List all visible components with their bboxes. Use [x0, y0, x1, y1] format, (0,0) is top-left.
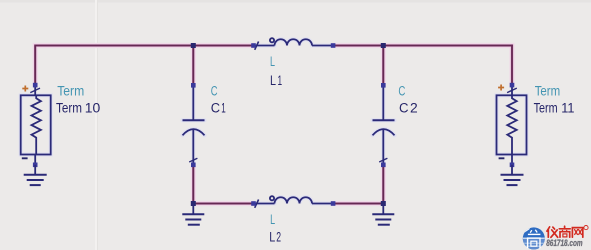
svg-text:C: C	[211, 83, 218, 98]
C1 pin2 node square	[191, 163, 196, 168]
L2 lead pin1	[254, 203, 275, 205]
L2 polarity circle	[270, 196, 274, 200]
wire: C1 upper stub	[192, 46, 194, 86]
inductor L1	[254, 38, 334, 50]
wire: right vertical to Term11	[511, 45, 513, 85]
L1 pin2 node square	[331, 43, 336, 48]
wire: bottom rail right segment	[333, 203, 383, 205]
wire: C2 lower stub	[382, 165, 384, 204]
svg-text:L: L	[270, 212, 275, 227]
svg-text:Term10: Term10	[56, 100, 100, 116]
wire: top rail left segment	[34, 45, 193, 47]
wire: top rail right segment	[383, 45, 513, 47]
wire: top rail L1 pin2 to node2	[333, 45, 383, 47]
wire: left vertical from top rail to Term10	[34, 46, 36, 86]
svg-text:C1: C1	[211, 101, 226, 117]
C1 bottom lead	[192, 130, 194, 166]
svg-text:L2: L2	[269, 229, 281, 245]
terminal Term10	[21, 85, 51, 165]
Term10 ground	[24, 165, 47, 185]
wire glow layer	[35, 46, 512, 204]
L2 pin1 node square	[251, 201, 256, 206]
C2 pin1 node square	[381, 83, 386, 88]
C2 pin2 node square	[381, 163, 386, 168]
Term11 pin1 slash	[507, 88, 517, 93]
Term10 top lead	[34, 85, 36, 95]
L2 coil	[275, 197, 313, 203]
watermark registered mark	[584, 226, 588, 230]
L1 lead pin1	[254, 45, 275, 47]
svg-text:Term: Term	[535, 83, 561, 98]
Term10 bottom lead	[34, 155, 36, 165]
logo glyph (white 商)	[528, 230, 541, 249]
Term11 body box	[497, 95, 527, 154]
char 网	[572, 228, 582, 238]
L1 polarity circle	[270, 38, 274, 42]
Term11 top lead	[511, 85, 513, 95]
Term11 ground	[501, 165, 524, 185]
Term10 pin node square	[33, 83, 38, 88]
L1 pin1 slash	[255, 42, 259, 50]
C1 curved plate	[183, 129, 205, 135]
terminal Term11	[497, 85, 527, 165]
char 仪	[547, 227, 550, 231]
L1 coil	[275, 39, 313, 45]
wire: C2 upper stub	[382, 46, 384, 86]
C1 flat plate	[183, 119, 205, 121]
wire: top rail node1 to L1 pin1	[193, 45, 253, 47]
Term10 body box	[21, 95, 51, 154]
capacitor C1	[183, 85, 205, 165]
L1 lead pin2	[312, 45, 333, 47]
Term11 resistor zigzag	[507, 95, 516, 154]
L2 pin2 node square	[331, 201, 336, 206]
Term10 resistor zigzag	[32, 95, 41, 154]
C1 pin1 node square	[191, 83, 196, 88]
ground at bottom-right node	[372, 204, 394, 225]
node junction square top-right (node 2)	[381, 43, 386, 48]
C2 pin2 slash	[379, 158, 387, 162]
L2 pin1 slash	[255, 200, 259, 208]
svg-text:Term11: Term11	[534, 100, 575, 116]
C2 curved plate	[373, 129, 395, 135]
Term11 plus sign	[498, 85, 504, 91]
C1 top lead	[192, 85, 194, 120]
wire: C1 lower stub	[192, 165, 194, 204]
panel divider line	[95, 0, 97, 250]
Term11 ground node square	[510, 163, 515, 168]
wire mid glow layer	[35, 46, 512, 204]
inductor L2	[254, 196, 334, 208]
C2 flat plate	[373, 119, 395, 121]
svg-text:C: C	[398, 83, 405, 98]
L1 pin1 node square	[251, 43, 256, 48]
Term10 ground node square	[33, 163, 38, 168]
Term11 pin node square	[510, 83, 515, 88]
component glow layer	[21, 39, 527, 203]
node junction square bottom-left (node 3)	[191, 201, 196, 206]
top shading band	[0, 0, 591, 3]
char 商	[564, 226, 566, 228]
capacitor C2	[373, 85, 395, 165]
svg-text:861718.com: 861718.com	[546, 238, 582, 248]
node junction square top-left (node 1)	[191, 43, 196, 48]
Term11 bottom lead	[511, 155, 513, 165]
C1 pin2 slash	[189, 158, 197, 162]
Term11 minus sign	[499, 157, 505, 159]
Term10 minus sign	[22, 157, 28, 159]
C2 top lead	[382, 85, 384, 120]
node junction square bottom-right (node 4)	[381, 201, 386, 206]
watermark text 仪商网 (drawn)	[547, 226, 583, 237]
L2 lead pin2	[312, 203, 333, 205]
svg-text:Term: Term	[57, 83, 84, 98]
svg-text:C2: C2	[399, 101, 418, 117]
wire: bottom rail left segment	[193, 203, 253, 205]
watermark logo circle	[521, 227, 547, 250]
svg-text:L: L	[270, 54, 275, 69]
Term10 pin1 slash	[30, 88, 40, 93]
ground at bottom-left node	[182, 204, 204, 225]
Term10 plus sign	[22, 86, 28, 92]
C2 bottom lead	[382, 130, 384, 166]
